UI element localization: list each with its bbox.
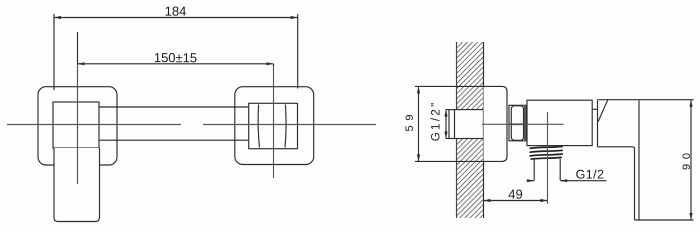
svg-text:G1/2: G1/2 [576, 167, 605, 181]
outlet cylinder [534, 159, 560, 181]
left handle (front view) [54, 148, 100, 222]
right valve body [249, 103, 298, 148]
front view horizontal centerline [7, 124, 376, 126]
handle lever side view [598, 100, 694, 220]
escutcheon side view [484, 86, 508, 161]
side view centerline [482, 123, 564, 125]
left vertical centerline [77, 64, 79, 184]
outlet thread [530, 146, 563, 159]
dimension 184 [54, 14, 298, 90]
mixer body side view [527, 100, 592, 145]
svg-text:49: 49 [508, 187, 522, 202]
connector size dimension [444, 110, 447, 139]
svg-text:150±15: 150±15 [154, 50, 197, 65]
connecting bar [99, 107, 249, 140]
right vertical centerline [273, 66, 275, 178]
left valve body [53, 102, 99, 148]
dimension 150±15 [78, 32, 274, 66]
handle neck [592, 100, 608, 147]
wall nut [509, 105, 527, 141]
right body face lines [258, 105, 286, 148]
dimension 90 arrows [689, 100, 692, 220]
dimension 59 [415, 86, 503, 161]
left escutcheon plate [38, 87, 117, 165]
right escutcheon plate [235, 87, 314, 165]
outlet axis centerline [547, 112, 549, 204]
dimension G1/2 outlet [527, 179, 607, 182]
dimension 49 [484, 199, 548, 202]
wall section [449, 42, 484, 218]
wall inlet connector G1/2" [446, 110, 484, 139]
svg-text:184: 184 [165, 4, 187, 19]
